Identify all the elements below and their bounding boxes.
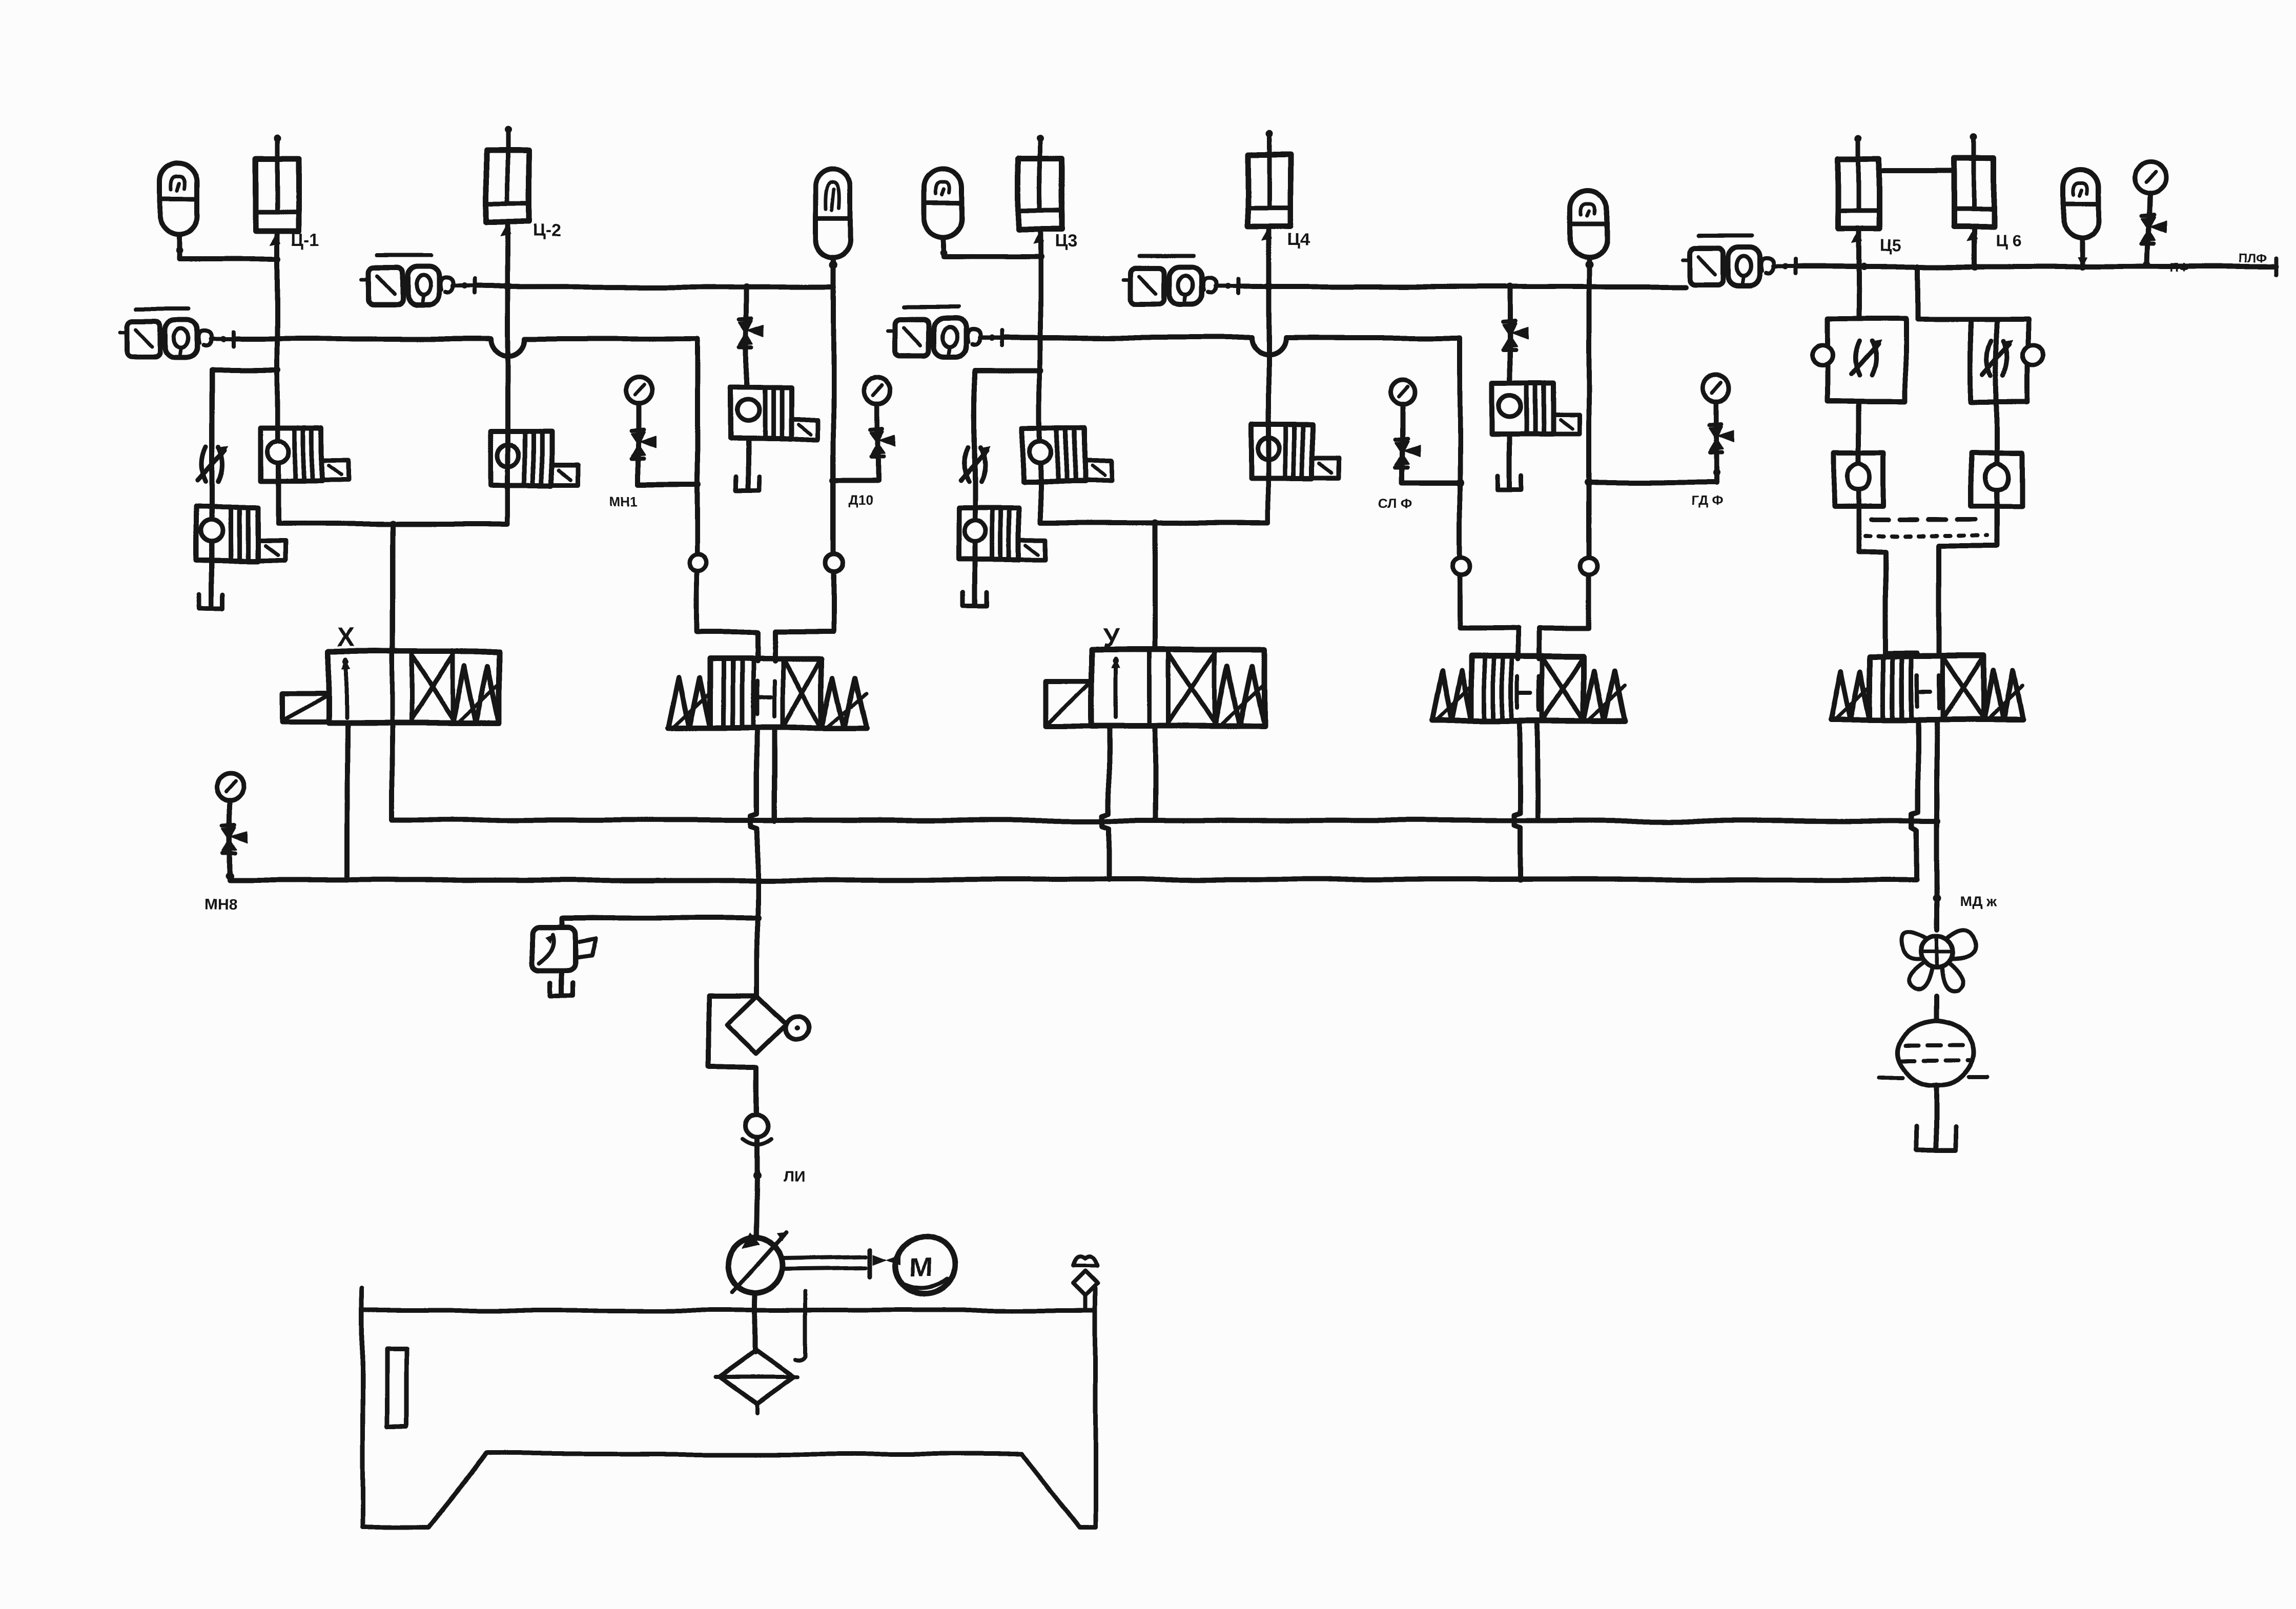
svg-text:ГД Ф: ГД Ф bbox=[1691, 492, 1723, 508]
gauge MN4 bbox=[1389, 380, 1414, 404]
svg-text:МД ж: МД ж bbox=[1960, 893, 1997, 909]
motor M1 bbox=[896, 1237, 954, 1294]
level gauge bbox=[386, 1348, 406, 1427]
wire station4 bus right bbox=[1540, 627, 1589, 632]
wire ZM2 pass-through bbox=[1994, 452, 1999, 506]
directional valve V3 bbox=[1046, 649, 1264, 726]
svg-text:Д10: Д10 bbox=[848, 492, 872, 508]
wire MN1 stub bbox=[639, 482, 698, 487]
check valve KO1 bbox=[260, 427, 348, 481]
motor drain stub bbox=[795, 1291, 806, 1360]
wire PS1 line with hop over C2 bbox=[237, 336, 491, 341]
cylinder C2 bbox=[486, 127, 529, 236]
cylinder C5 bbox=[1838, 135, 1879, 243]
coupling node N4b bbox=[1580, 558, 1597, 575]
accumulator A1 bbox=[161, 163, 198, 235]
wire right column down bbox=[1994, 319, 1999, 452]
pressure switch PS2 bbox=[361, 256, 478, 305]
accumulator A4 bbox=[1571, 191, 1607, 257]
svg-text:ПЛФ: ПЛФ bbox=[2240, 252, 2268, 265]
fan cooler bbox=[1901, 931, 1974, 992]
wire A4 stem bbox=[1586, 257, 1591, 286]
svg-text:Ц-1: Ц-1 bbox=[291, 230, 319, 249]
throttle valve DR3 bbox=[960, 445, 990, 481]
wire rail P (lower manifold) bbox=[230, 879, 1917, 880]
tank drain T4 bbox=[1498, 476, 1522, 489]
wire throttle branch tap bbox=[212, 367, 277, 373]
svg-text:Ц 6: Ц 6 bbox=[1996, 231, 2021, 250]
wire ZM1 pass-through bbox=[1856, 452, 1861, 506]
coupling node N2b bbox=[825, 554, 843, 571]
wire return to heat exchanger bbox=[1934, 996, 1939, 1021]
tank bbox=[362, 1288, 1096, 1527]
wire relief branch 4 lower bbox=[1507, 435, 1512, 488]
svg-text:СЛ Ф: СЛ Ф bbox=[1379, 495, 1412, 510]
breather bbox=[1074, 1256, 1098, 1310]
wire PS3 line with hop over C4 bbox=[1004, 335, 1252, 340]
wire pilot dashed line bbox=[1872, 518, 1979, 522]
wire pump suction bbox=[753, 1293, 758, 1353]
directional valve V2 bbox=[668, 658, 867, 728]
wire pump suction top bbox=[756, 1177, 757, 1239]
wire throttle branch 3 down bbox=[972, 370, 977, 605]
wire C5-C6 link bbox=[1879, 169, 1954, 174]
flow control valve RP2 bbox=[1971, 319, 2043, 402]
wire relief branch 4 bbox=[1507, 286, 1512, 383]
check valve KO4 bbox=[1252, 425, 1340, 479]
wire left staircase to V5 bbox=[1859, 506, 1917, 656]
wire A2 stem bbox=[831, 257, 836, 286]
wire station4 left work line down bbox=[1457, 338, 1462, 629]
wire A3 to C3 bbox=[944, 255, 1040, 260]
shutoff valve VN4a bbox=[1503, 321, 1527, 349]
pump P1 bbox=[728, 1233, 786, 1293]
svg-text:МН8: МН8 bbox=[205, 896, 237, 913]
wire C4 column bbox=[1266, 230, 1272, 523]
accumulator A3 bbox=[925, 169, 962, 238]
pilot check valve ZM1 bbox=[1834, 452, 1884, 506]
shutoff valve VN8 bbox=[223, 824, 248, 853]
svg-text:ЛИ: ЛИ bbox=[783, 1169, 805, 1186]
filter F1 with bypass bbox=[709, 995, 809, 1067]
coupling node N4a bbox=[1452, 558, 1470, 575]
wire MN5 stem bbox=[1714, 402, 1719, 482]
wire MN4 stem bbox=[1399, 404, 1404, 482]
shutoff valve VN4 bbox=[1395, 438, 1419, 467]
wire V4 P to rail P bbox=[1513, 720, 1520, 880]
shutoff valve VN5 bbox=[1710, 424, 1734, 452]
shutoff valve VN9 bbox=[2142, 215, 2166, 243]
wire MN2 stub bbox=[833, 478, 878, 483]
check valve KO2 bbox=[490, 431, 579, 485]
directional valve V4 bbox=[1431, 657, 1625, 720]
accumulator A5 bbox=[2064, 169, 2099, 238]
relief valve KP3 bbox=[958, 508, 1045, 560]
wire V3 P to rail P bbox=[1103, 726, 1109, 880]
wire MN9 stem bbox=[2148, 193, 2150, 264]
relief valve KP2 bbox=[730, 388, 817, 440]
shutoff valve VN1 bbox=[631, 430, 656, 459]
pilot relief valve KPP bbox=[532, 918, 596, 995]
wire to right tank bbox=[1934, 1085, 1939, 1148]
wire station2 bus right bbox=[775, 628, 833, 633]
cylinder C3 bbox=[1019, 135, 1062, 244]
wire CV2 riser bbox=[505, 484, 510, 524]
gauge MN9 bbox=[2135, 162, 2165, 193]
shutoff valve VN2a bbox=[740, 319, 764, 348]
wire right staircase to V5 bbox=[1939, 506, 1996, 656]
wire throttle branch down bbox=[210, 370, 215, 606]
wire relief branch 2 bbox=[744, 286, 749, 388]
cylinder C1 bbox=[256, 134, 299, 245]
wire C5 column mid bbox=[1856, 402, 1861, 452]
wire V1 P to rail P bbox=[345, 723, 350, 880]
wire MN5 stub bbox=[1589, 479, 1717, 484]
wire MN8 stem bbox=[228, 800, 233, 878]
wire V4 port A drop bbox=[1515, 629, 1521, 659]
wire C6 column bbox=[1972, 226, 1977, 266]
wire MN4 stub bbox=[1402, 480, 1460, 485]
relief valve KP4 bbox=[1492, 383, 1580, 435]
wire V4 T to rail T bbox=[1535, 720, 1540, 820]
pressure switch PS5 bbox=[1683, 236, 1800, 285]
heat exchanger bbox=[1879, 1021, 1988, 1085]
wire V2 P down to pump line bbox=[751, 728, 757, 880]
wire pump riser mid bbox=[755, 880, 760, 995]
suction strainer bbox=[715, 1351, 797, 1413]
directional valve V1 bbox=[281, 652, 500, 723]
wire station2 bus left bbox=[698, 629, 757, 634]
pilot label dashes bbox=[1865, 534, 1986, 538]
pressure switch PS3 bbox=[888, 307, 1004, 357]
wire V3 T through to rail T bbox=[1153, 726, 1158, 820]
motor shaft bbox=[783, 1249, 901, 1277]
check valve KO3 bbox=[1023, 428, 1111, 482]
wire C1 bus to CV2 corner bbox=[277, 521, 508, 526]
wire A4 column bbox=[1586, 286, 1591, 629]
wire relief pilot tap bbox=[562, 915, 757, 920]
wire main line end cap bbox=[2275, 258, 2279, 275]
wire C1 column bbox=[275, 231, 280, 524]
pressure switch PS4 bbox=[1124, 256, 1241, 305]
wire V3 feed drop bbox=[1153, 523, 1158, 649]
wire C2 column bbox=[505, 222, 510, 484]
gauge MN8 bbox=[217, 774, 243, 800]
wire V5 P down joining rail P upturn bbox=[1912, 719, 1918, 830]
wire throttle branch 3 tap bbox=[975, 367, 1040, 373]
wire V4 bottom edge bbox=[1431, 717, 1625, 723]
tank drain T1 bbox=[200, 594, 223, 608]
check valve KO5 bbox=[743, 1067, 772, 1177]
wire C5 column bbox=[1856, 229, 1861, 319]
wire A2 column bbox=[831, 286, 836, 631]
pressure switch PS1 bbox=[120, 308, 237, 358]
gauge MN5 bbox=[1704, 375, 1730, 402]
wire station5 main line bbox=[1797, 264, 2277, 269]
wire V2 bottom edge bbox=[668, 726, 867, 731]
wire relief branch 2 lower bbox=[745, 440, 750, 489]
wire V2 T to rail T bbox=[772, 728, 777, 821]
wire right branch elbow bbox=[1917, 316, 1996, 321]
wire V1 feed drop bbox=[390, 524, 395, 652]
relief valve KP1 bbox=[197, 508, 284, 561]
wire A1 stem bbox=[177, 235, 182, 259]
wire C3 column bbox=[1038, 230, 1043, 523]
shutoff valve VN2 bbox=[871, 428, 895, 457]
svg-text:Ц5: Ц5 bbox=[1880, 236, 1901, 255]
wire rail P end upturn bbox=[1914, 830, 1919, 879]
gauge MN1 bbox=[625, 377, 652, 404]
coupling node N2a bbox=[690, 554, 707, 571]
wire V4 port B drop bbox=[1537, 629, 1542, 659]
wire V1 T through to rail T bbox=[390, 723, 395, 820]
svg-text:Ц-2: Ц-2 bbox=[533, 221, 561, 241]
throttle valve DR1 bbox=[198, 446, 228, 482]
cylinder C6 bbox=[1954, 135, 1994, 241]
gauge MN2 bbox=[865, 377, 891, 403]
wire station4 bus left bbox=[1460, 627, 1518, 632]
tank drain T2 bbox=[735, 478, 759, 491]
svg-text:X: X bbox=[338, 623, 356, 653]
tank drain T5 bbox=[1916, 1127, 1956, 1150]
cylinder C4 bbox=[1247, 131, 1290, 241]
pilot check valve ZM2 bbox=[1971, 452, 2021, 506]
directional valve V5 bbox=[1831, 656, 2022, 719]
wire V2 port A drop bbox=[755, 632, 760, 661]
wire MN1 stem bbox=[636, 404, 641, 484]
wire rail T (upper manifold) bbox=[393, 820, 1937, 821]
svg-text:Ц4: Ц4 bbox=[1287, 230, 1310, 250]
svg-text:МН1: МН1 bbox=[610, 492, 638, 508]
wire right branch tap bbox=[1915, 266, 1920, 319]
wire A1 to C1 bbox=[179, 256, 277, 261]
wire MN2 stem bbox=[875, 403, 880, 481]
wire V5 T return line down bbox=[1934, 719, 1939, 931]
wire A3 stem bbox=[941, 238, 946, 257]
wire A5 stem bbox=[2079, 238, 2084, 266]
flow control valve RP1 bbox=[1812, 319, 1905, 402]
wire station2 left work line down bbox=[695, 339, 700, 632]
wire V2 port B drop bbox=[772, 631, 777, 661]
wire PS2/A2 link line bbox=[475, 286, 833, 287]
svg-text:Ц3: Ц3 bbox=[1055, 232, 1077, 251]
wire V5 bottom edge bbox=[1831, 717, 2022, 723]
wire station3 bus bbox=[1040, 520, 1269, 525]
accumulator A2 bbox=[816, 169, 851, 257]
wire PS4/A4 link line bbox=[1238, 284, 1686, 289]
svg-text:М: М bbox=[910, 1253, 932, 1283]
svg-text:ПФ: ПФ bbox=[2171, 261, 2190, 275]
tank drain T3 bbox=[963, 593, 987, 607]
